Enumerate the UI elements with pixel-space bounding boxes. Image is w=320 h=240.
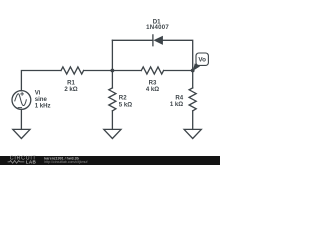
svg-text:1 kHz: 1 kHz — [35, 103, 51, 110]
ground (R4) — [184, 129, 201, 138]
ground (R2) — [104, 129, 121, 138]
resistor R2 — [109, 71, 116, 130]
voltage source V1 — [12, 91, 31, 110]
resistor R4 — [189, 71, 196, 130]
node Vo flag — [193, 53, 209, 71]
svg-text:Vo: Vo — [198, 57, 206, 64]
svg-text:4 kΩ: 4 kΩ — [146, 86, 159, 93]
node B junction dot — [191, 69, 195, 73]
node A junction dot — [111, 69, 115, 73]
resistor R1 — [61, 67, 84, 74]
wire top rail left segment — [112, 39, 152, 41]
wire source top to R1 — [21, 71, 61, 91]
svg-text:http://circuitlab.com/c/tjkmuf: http://circuitlab.com/c/tjkmuf — [44, 160, 87, 164]
wire R3 to node B — [164, 70, 193, 72]
wire node A up to top rail — [111, 40, 113, 70]
svg-text:LAB: LAB — [26, 160, 37, 165]
resistor R3 — [141, 67, 163, 74]
svg-text:1N4007: 1N4007 — [146, 24, 169, 31]
svg-text:2 kΩ: 2 kΩ — [64, 86, 77, 93]
wire source to ground — [20, 109, 22, 129]
footer CircuitLab logo — [8, 156, 37, 165]
diode D1 — [153, 35, 163, 46]
wire diode to top-right corner and down to node B — [163, 40, 193, 70]
svg-text:1 kΩ: 1 kΩ — [170, 101, 183, 108]
svg-text:5 kΩ: 5 kΩ — [119, 101, 132, 108]
footer bar — [0, 156, 220, 165]
wire node A to R3 — [112, 70, 141, 72]
ground (source) — [13, 129, 30, 138]
wire R1 to node A — [84, 70, 113, 72]
